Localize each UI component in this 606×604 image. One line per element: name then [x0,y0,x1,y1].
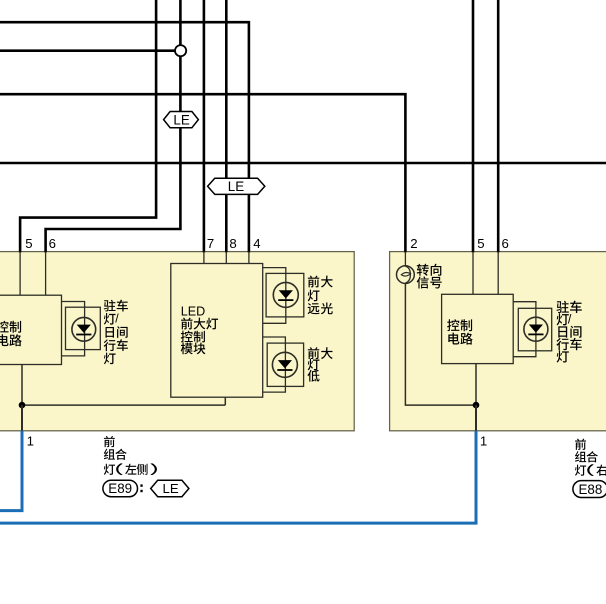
svg-text:8: 8 [229,236,236,251]
svg-text:1: 1 [480,434,487,449]
wire parking supply to pin5 left [20,0,156,252]
svg-text:5: 5 [477,236,484,251]
control circuit box right [442,294,514,363]
housing low-beam LED [267,343,303,386]
housing parking LED right [518,308,551,351]
svg-text:1: 1 [27,434,34,449]
label parking/daytime lamp right [556,301,581,363]
label front combination lamp right [575,439,606,476]
label control circuit right [447,319,473,344]
label LED headlamp control module [181,305,218,355]
wire parking supply to pin5 right [472,0,475,252]
label headlamp low beam [307,347,332,381]
high-beam LED diode [273,282,298,307]
wire control circuit to ground node left [21,365,23,406]
wire loop low-beam LED [263,337,286,392]
blue ground wire left [0,431,22,511]
pin 6 stub right [497,252,499,295]
wire lamp to ground rail right [405,283,476,405]
wire daytime-running supply to pin6 left [46,0,181,252]
wire battery feed to pin4 [0,22,249,252]
pin 8 stub [225,252,227,264]
pin 1 label left [27,434,34,449]
label turn signal [417,264,442,289]
blue ground wire right [0,431,476,523]
wire daytime-running supply to pin6 right [497,0,500,252]
pin 5 label left [25,236,32,251]
colon separator left [140,484,142,492]
pin 6 stub left [45,252,47,296]
node A connector joint [175,45,186,56]
connector tag LE upper [164,112,199,128]
wire ground node to pin1 right [475,405,477,431]
wire high-beam signal to pin8 [225,0,228,252]
svg-text:LE: LE [163,481,179,496]
pin 2 stub [404,252,406,266]
control circuit box left [0,295,62,364]
svg-text:LED: LED [181,305,206,319]
wire loop high-beam LED [263,268,286,324]
pin 4 stub [248,252,250,264]
wire module to ground node left [22,397,225,405]
svg-text:6: 6 [49,236,56,251]
wire ground bus horizontal [0,162,606,165]
pin 5 stub right [472,252,474,294]
connector tag LE bottom [151,480,189,496]
pin 8 label [229,236,236,251]
pin 6 label left [49,236,56,251]
wire loop parking LED left [62,302,85,356]
wire control circuit to ground node right [475,364,477,406]
wire turn-signal feed to pin2 right [0,94,405,252]
label front combination lamp left [104,436,157,475]
pin 2 label [410,236,417,251]
svg-text:E89: E89 [108,481,132,496]
pin 6 label right [502,236,509,251]
label control circuit left [0,321,22,347]
connector tag LE lower [208,178,265,194]
turn signal bulb [397,266,415,284]
svg-text:E88: E88 [578,482,602,497]
label headlamp high beam [308,276,333,315]
svg-text:4: 4 [253,236,260,251]
pin 4 label [253,236,260,251]
svg-text:5: 5 [25,236,32,251]
svg-text:LE: LE [173,112,189,127]
label parking/daytime lamp left [104,300,128,365]
svg-text:/: / [115,312,119,326]
parking LED right diode [524,317,548,341]
housing parking LED left [66,307,101,349]
pin 5 label right [477,236,484,251]
low-beam LED diode [272,352,297,377]
svg-text:7: 7 [207,236,214,251]
pin 1 label right [480,434,487,449]
ground node right [473,402,480,409]
pin 7 stub [203,252,205,264]
ground node left [19,402,26,409]
svg-text:/: / [568,312,572,326]
wire loop parking LED right [513,302,536,357]
svg-text:6: 6 [502,236,509,251]
front combination lamp left housing E89 [0,252,354,431]
connector E89 oval [103,480,138,497]
svg-text:2: 2 [410,236,417,251]
housing high-beam LED [266,273,304,317]
connector E88 oval [573,481,606,498]
svg-text:LE: LE [228,179,244,194]
wire branch to node A [0,49,180,52]
wire headlamp supply to pin7 [203,0,206,252]
front combination lamp right housing E88 [390,252,606,431]
LED headlamp control module box [171,264,263,398]
pin 7 label [207,236,214,251]
wire ground node to pin1 left [21,405,23,431]
pin 5 stub left [19,252,21,296]
parking LED left diode [72,317,96,341]
